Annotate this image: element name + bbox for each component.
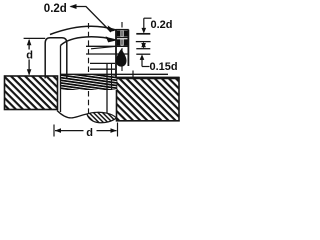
svg-text:0.2d: 0.2d — [44, 3, 67, 15]
svg-text:d: d — [26, 50, 33, 62]
svg-text:0.15d: 0.15d — [150, 61, 178, 73]
svg-text:d: d — [86, 127, 93, 139]
svg-text:0.2d: 0.2d — [151, 19, 173, 31]
